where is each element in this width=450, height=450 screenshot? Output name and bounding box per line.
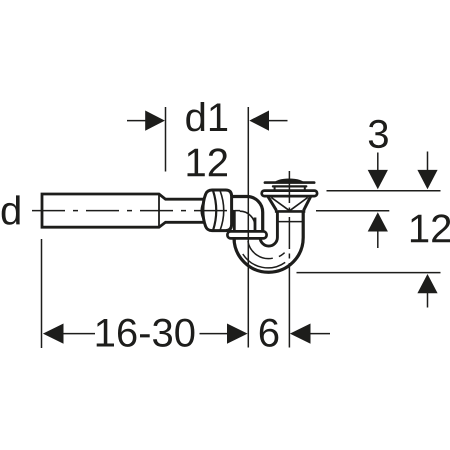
trap U-bend outer circle and outlet right wall	[234, 211, 303, 272]
inlet pipe (diameter d)	[42, 194, 208, 227]
reference line middle	[316, 210, 389, 212]
cap dome	[274, 179, 304, 184]
pipe centerline	[32, 210, 243, 212]
outlet centerline / extension line	[288, 171, 290, 281]
extension line pipe end	[41, 239, 43, 348]
funnel inner V right	[290, 198, 308, 211]
elbow outer contour	[228, 197, 263, 233]
dimension 16-30 left arrow	[62, 333, 95, 335]
label 12 (height)	[411, 214, 450, 242]
elbow left wall	[230, 210, 235, 232]
funnel outer right	[304, 196, 311, 210]
flange legs	[275, 187, 305, 191]
label 16-30	[97, 319, 195, 347]
trap inner arc hidden dash	[279, 253, 285, 257]
outlet pipe inner line	[278, 221, 302, 223]
label d1	[186, 102, 227, 131]
dimension 3 up arrow	[377, 230, 379, 248]
drain flange	[262, 191, 317, 197]
trap inner U	[260, 211, 277, 246]
compression nut	[203, 190, 232, 231]
elbow inner bend arc	[240, 211, 255, 226]
trap lower inner arc	[243, 254, 285, 268]
nut chamfer ring	[201, 201, 204, 220]
d1 dimension arrow right	[269, 120, 288, 122]
dimension 16-30 right arrow	[200, 333, 229, 335]
label 6	[260, 319, 279, 347]
reference line top (3)	[327, 190, 441, 192]
trap inlet wall below collar	[233, 238, 236, 242]
dimension 12 up arrow	[427, 292, 429, 308]
cap lower rim	[273, 185, 306, 187]
reference line bottom (12)	[297, 272, 441, 274]
cap top line	[265, 181, 314, 184]
label 3	[369, 120, 388, 148]
extension line trap inlet	[247, 107, 249, 348]
funnel outer left	[268, 196, 277, 210]
elbow inner right wall	[254, 218, 257, 233]
dimension 3 down arrow	[377, 153, 379, 173]
collar slip nut	[227, 231, 266, 238]
nut band 1	[213, 191, 216, 231]
dimension 6 right arrow	[309, 333, 330, 335]
trap inner arc	[248, 241, 273, 258]
label 12 (insertion depth)	[188, 148, 228, 176]
funnel inner V left	[271, 198, 289, 211]
dimension 12 down arrow	[427, 152, 429, 173]
nut band 2	[220, 191, 224, 231]
funnel joint line	[275, 210, 305, 213]
label d	[2, 195, 20, 224]
d1 dimension arrow left	[127, 120, 147, 122]
extension line d1 left	[165, 107, 167, 172]
pipe step line	[158, 195, 160, 227]
